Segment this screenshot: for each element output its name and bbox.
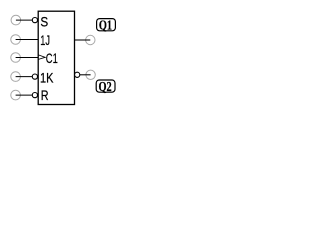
wire R	[16, 94, 33, 96]
inversion bubble R	[32, 93, 37, 98]
input port C1 (clock)	[11, 53, 21, 63]
net label box Q2	[96, 80, 115, 92]
input port 1J	[11, 35, 21, 45]
inversion bubble Q2	[75, 72, 80, 77]
svg-text:Q1: Q1	[99, 18, 112, 33]
wire S	[16, 19, 32, 21]
output port Q1	[86, 35, 95, 44]
svg-text:R: R	[41, 87, 49, 103]
wire C1	[16, 57, 39, 59]
inversion bubble 1K	[32, 74, 37, 79]
wire Q2	[80, 74, 91, 76]
wire 1J	[16, 39, 39, 41]
dynamic input triangle C1	[38, 55, 45, 60]
net label box Q1	[97, 19, 116, 31]
svg-text:S: S	[40, 13, 48, 29]
wire Q1	[75, 39, 91, 41]
input port R	[11, 90, 21, 100]
input port S	[11, 15, 21, 25]
output port Q2	[86, 70, 95, 79]
flip-flop body U1	[38, 11, 74, 104]
svg-text:C1: C1	[46, 50, 58, 66]
inversion bubble S	[32, 18, 37, 23]
wire 1K	[16, 76, 33, 78]
svg-text:1K: 1K	[40, 70, 54, 86]
input port 1K	[11, 72, 21, 82]
svg-text:1J: 1J	[40, 32, 50, 48]
svg-text:Q2: Q2	[99, 79, 112, 94]
